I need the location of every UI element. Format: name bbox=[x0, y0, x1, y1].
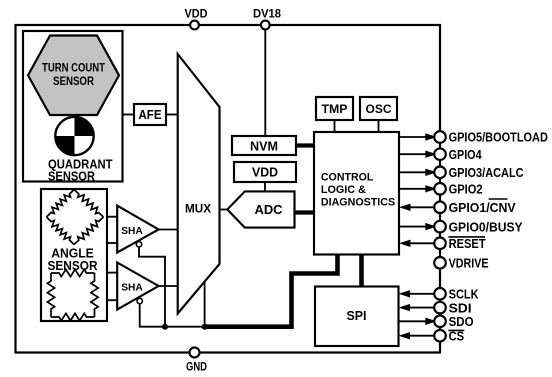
svg-text:DIAGNOSTICS: DIAGNOSTICS bbox=[321, 197, 395, 209]
SHA1 clock wire bbox=[139, 247, 165, 327]
svg-text:SPI: SPI bbox=[347, 309, 367, 323]
svg-text:TURN COUNT: TURN COUNT bbox=[42, 61, 106, 75]
svg-text:VDRIVE: VDRIVE bbox=[449, 256, 489, 271]
pin CS bbox=[410, 335, 434, 337]
pin VDRIVE bbox=[434, 257, 446, 269]
SHA1 clock bubble bbox=[136, 242, 141, 247]
NVM block bbox=[232, 136, 296, 155]
pin GPIO4 bbox=[399, 153, 428, 155]
svg-text:SENSOR: SENSOR bbox=[48, 170, 95, 184]
svg-text:SDO: SDO bbox=[449, 314, 474, 329]
junction node A bbox=[162, 324, 168, 330]
OSC block bbox=[360, 97, 397, 120]
svg-text:VDD: VDD bbox=[252, 166, 278, 180]
quadrant sensor symbol bbox=[55, 117, 93, 155]
AFE block bbox=[134, 104, 166, 125]
svg-text:SENSOR: SENSOR bbox=[48, 258, 99, 273]
svg-text:NVM: NVM bbox=[250, 139, 278, 153]
svg-text:GPIO0/BUSY: GPIO0/BUSY bbox=[449, 219, 523, 234]
pin GPIO0/BUSY bbox=[399, 226, 428, 228]
wire VDD to ADC bbox=[264, 182, 266, 191]
angle sensor box bbox=[41, 189, 107, 321]
wire SHA1 output to MUX bbox=[159, 229, 178, 231]
angle sensor bridge 2 (square of resistors) bbox=[47, 269, 98, 320]
wire TMP to control bbox=[334, 120, 336, 132]
control logic block bbox=[314, 132, 399, 255]
svg-text:MUX: MUX bbox=[185, 202, 211, 216]
pin VDD (top) bbox=[190, 21, 199, 30]
ADC block bbox=[227, 191, 294, 227]
svg-text:GND: GND bbox=[186, 362, 207, 374]
svg-text:SCLK: SCLK bbox=[449, 287, 480, 302]
thick bus ADC to control bbox=[295, 210, 314, 214]
TMP block bbox=[316, 97, 353, 120]
wire OSC to control bbox=[378, 120, 380, 132]
wires angle sensor to SHA2 bbox=[107, 272, 117, 274]
sensor block box (turn count + quadrant) bbox=[23, 31, 123, 182]
pin SDI bbox=[410, 307, 434, 309]
pin GPIO3/ACALC bbox=[399, 171, 428, 173]
wire DV18 to NVM bbox=[264, 25, 266, 136]
SHA2 clock bubble bbox=[137, 298, 142, 303]
wire MUX to ADC bbox=[220, 209, 228, 211]
svg-text:GPIO3/ACALC: GPIO3/ACALC bbox=[449, 165, 525, 180]
thick bus control to SPI bbox=[359, 253, 364, 288]
svg-text:SHA: SHA bbox=[121, 225, 143, 237]
pin GPIO2 bbox=[399, 188, 428, 190]
MUX block bbox=[178, 54, 220, 314]
wires angle sensor to SHA1 bbox=[107, 216, 117, 218]
svg-text:GPIO4: GPIO4 bbox=[449, 147, 483, 162]
svg-text:RESET: RESET bbox=[449, 236, 486, 251]
SHA1 amplifier bbox=[117, 206, 158, 253]
svg-text:SENSOR: SENSOR bbox=[53, 74, 94, 88]
SPI block bbox=[315, 287, 399, 347]
svg-text:SHA: SHA bbox=[121, 281, 143, 293]
svg-text:LOGIC &: LOGIC & bbox=[321, 184, 366, 196]
angle sensor bridge (diamond of resistors) bbox=[47, 190, 104, 245]
pin GPIO5/BOOTLOAD bbox=[399, 136, 428, 138]
VDD regulator block bbox=[234, 162, 296, 182]
svg-text:GPIO2: GPIO2 bbox=[449, 182, 483, 197]
junction node B bbox=[202, 324, 208, 330]
svg-text:GPIO1/CNV: GPIO1/CNV bbox=[449, 200, 516, 215]
wire AFE to MUX bbox=[166, 114, 178, 116]
wire sensor box to AFE bbox=[123, 114, 135, 116]
SHA2 amplifier bbox=[117, 263, 158, 310]
pin GPIO1/CNV bbox=[410, 206, 434, 208]
svg-text:ADC: ADC bbox=[255, 203, 283, 217]
svg-text:GPIO5/BOOTLOAD: GPIO5/BOOTLOAD bbox=[449, 130, 548, 145]
SHA2 clock wire bbox=[140, 304, 205, 327]
turn count sensor hexagon bbox=[28, 36, 119, 116]
thick bus to SPI/control bbox=[205, 253, 338, 327]
pin RESET bbox=[410, 242, 434, 244]
pin SCLK bbox=[410, 293, 434, 295]
thick bus NVM to control bbox=[296, 143, 314, 147]
svg-text:OSC: OSC bbox=[366, 102, 392, 116]
svg-text:VDD: VDD bbox=[185, 7, 208, 21]
pin SDO bbox=[399, 320, 429, 322]
svg-text:AFE: AFE bbox=[139, 108, 162, 122]
wire SHA2 output to MUX bbox=[159, 285, 178, 287]
pin DV18 (top) bbox=[261, 21, 270, 30]
pin GND (bottom) bbox=[190, 348, 200, 358]
svg-text:CONTROL: CONTROL bbox=[321, 171, 374, 183]
MUX bottom tap wire bbox=[204, 282, 206, 327]
svg-text:TMP: TMP bbox=[322, 102, 348, 116]
svg-text:DV18: DV18 bbox=[253, 7, 281, 21]
chip boundary box bbox=[16, 25, 441, 353]
